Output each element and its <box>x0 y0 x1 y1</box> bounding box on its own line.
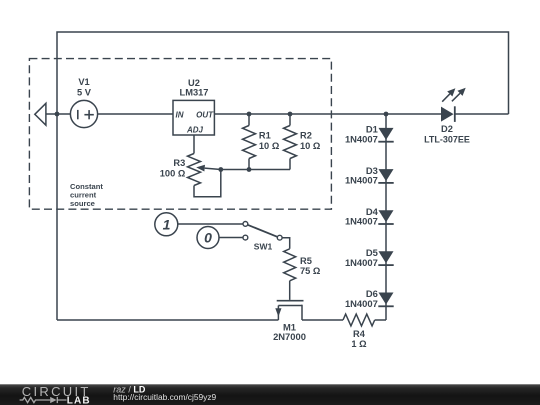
svg-text:IN: IN <box>176 110 184 119</box>
svg-text:2N7000: 2N7000 <box>273 331 306 342</box>
svg-text:1: 1 <box>163 216 171 232</box>
svg-text:V1: V1 <box>78 77 89 87</box>
svg-text:5 V: 5 V <box>77 88 92 98</box>
svg-text:R1: R1 <box>259 131 271 141</box>
svg-text:http://circuitlab.com/cj59yz9: http://circuitlab.com/cj59yz9 <box>113 392 216 402</box>
svg-text:1N4007: 1N4007 <box>345 216 378 227</box>
svg-text:10 Ω: 10 Ω <box>259 141 280 151</box>
svg-text:source: source <box>70 199 95 208</box>
svg-text:0: 0 <box>204 230 212 246</box>
svg-text:D2: D2 <box>441 124 453 134</box>
svg-text:R2: R2 <box>300 131 312 141</box>
svg-text:OUT: OUT <box>196 110 214 119</box>
svg-text:1N4007: 1N4007 <box>345 298 378 309</box>
svg-text:SW1: SW1 <box>254 242 273 252</box>
svg-text:1N4007: 1N4007 <box>345 175 378 186</box>
svg-text:LM317: LM317 <box>180 87 209 97</box>
svg-text:1N4007: 1N4007 <box>345 133 378 144</box>
svg-text:R3: R3 <box>173 158 185 168</box>
svg-text:100 Ω: 100 Ω <box>160 169 186 179</box>
svg-text:ADJ: ADJ <box>186 126 204 135</box>
svg-text:LAB: LAB <box>67 396 91 405</box>
svg-text:1N4007: 1N4007 <box>345 257 378 268</box>
svg-text:1 Ω: 1 Ω <box>351 339 367 349</box>
svg-text:10 Ω: 10 Ω <box>300 141 321 151</box>
svg-text:R4: R4 <box>353 329 366 339</box>
svg-text:LTL-307EE: LTL-307EE <box>424 135 470 145</box>
svg-text:R5: R5 <box>300 256 312 266</box>
svg-text:75 Ω: 75 Ω <box>300 266 321 276</box>
